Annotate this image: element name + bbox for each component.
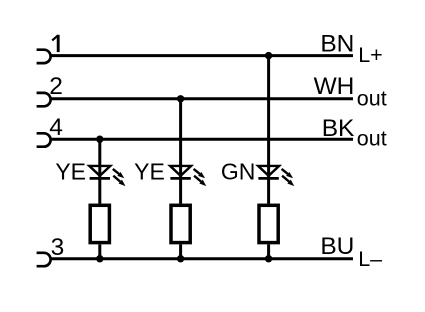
svg-text:GN: GN [221, 158, 256, 184]
svg-text:L+: L+ [358, 43, 383, 67]
wire 1 (pin1 to BN/L+) [50, 54, 353, 57]
svg-text:YE: YE [55, 158, 86, 184]
resistor R1 [90, 205, 109, 242]
connector pin 2 [37, 93, 51, 106]
junction on BN wire [265, 52, 272, 59]
LED D2 yellow [170, 166, 206, 186]
connector pin 4 [37, 133, 51, 146]
LED D3 green [258, 166, 294, 186]
connector pin 1 [37, 50, 51, 63]
junction on BK wire [96, 136, 103, 143]
LED D1 yellow [89, 166, 125, 186]
svg-text:BU: BU [320, 233, 354, 260]
svg-text:BN: BN [320, 30, 354, 57]
svg-text:WH: WH [314, 73, 355, 100]
junction on BU wire below R3 [265, 255, 272, 262]
wire: vertical branch from WH wire through LED2/R2 to BU wire [179, 99, 182, 259]
svg-text:L–: L– [358, 247, 382, 271]
svg-text:2: 2 [49, 73, 63, 100]
svg-text:out: out [357, 127, 387, 151]
svg-text:BK: BK [322, 115, 355, 142]
junction on WH wire [177, 95, 184, 102]
wire: vertical branch from BK wire through LED1/R1 to BU wire [98, 139, 101, 259]
resistor R3 [259, 205, 278, 242]
junction on BU wire below R2 [177, 255, 184, 262]
wire: vertical branch from BN wire through LED3/R3 to BU wire [267, 56, 270, 259]
wire 4 (pin3 to BU/L-) [50, 257, 353, 260]
junction on BU wire below R1 [96, 255, 103, 262]
svg-text:YE: YE [134, 158, 165, 184]
wire 3 (pin4 to BK/out) [50, 138, 353, 141]
wire 2 (pin2 to WH/out) [50, 97, 353, 100]
pin number 1 [52, 35, 58, 52]
svg-text:out: out [357, 86, 387, 110]
svg-text:3: 3 [51, 234, 65, 261]
connector pin 3 [37, 253, 51, 266]
svg-text:4: 4 [49, 114, 63, 141]
resistor R2 [171, 205, 190, 242]
